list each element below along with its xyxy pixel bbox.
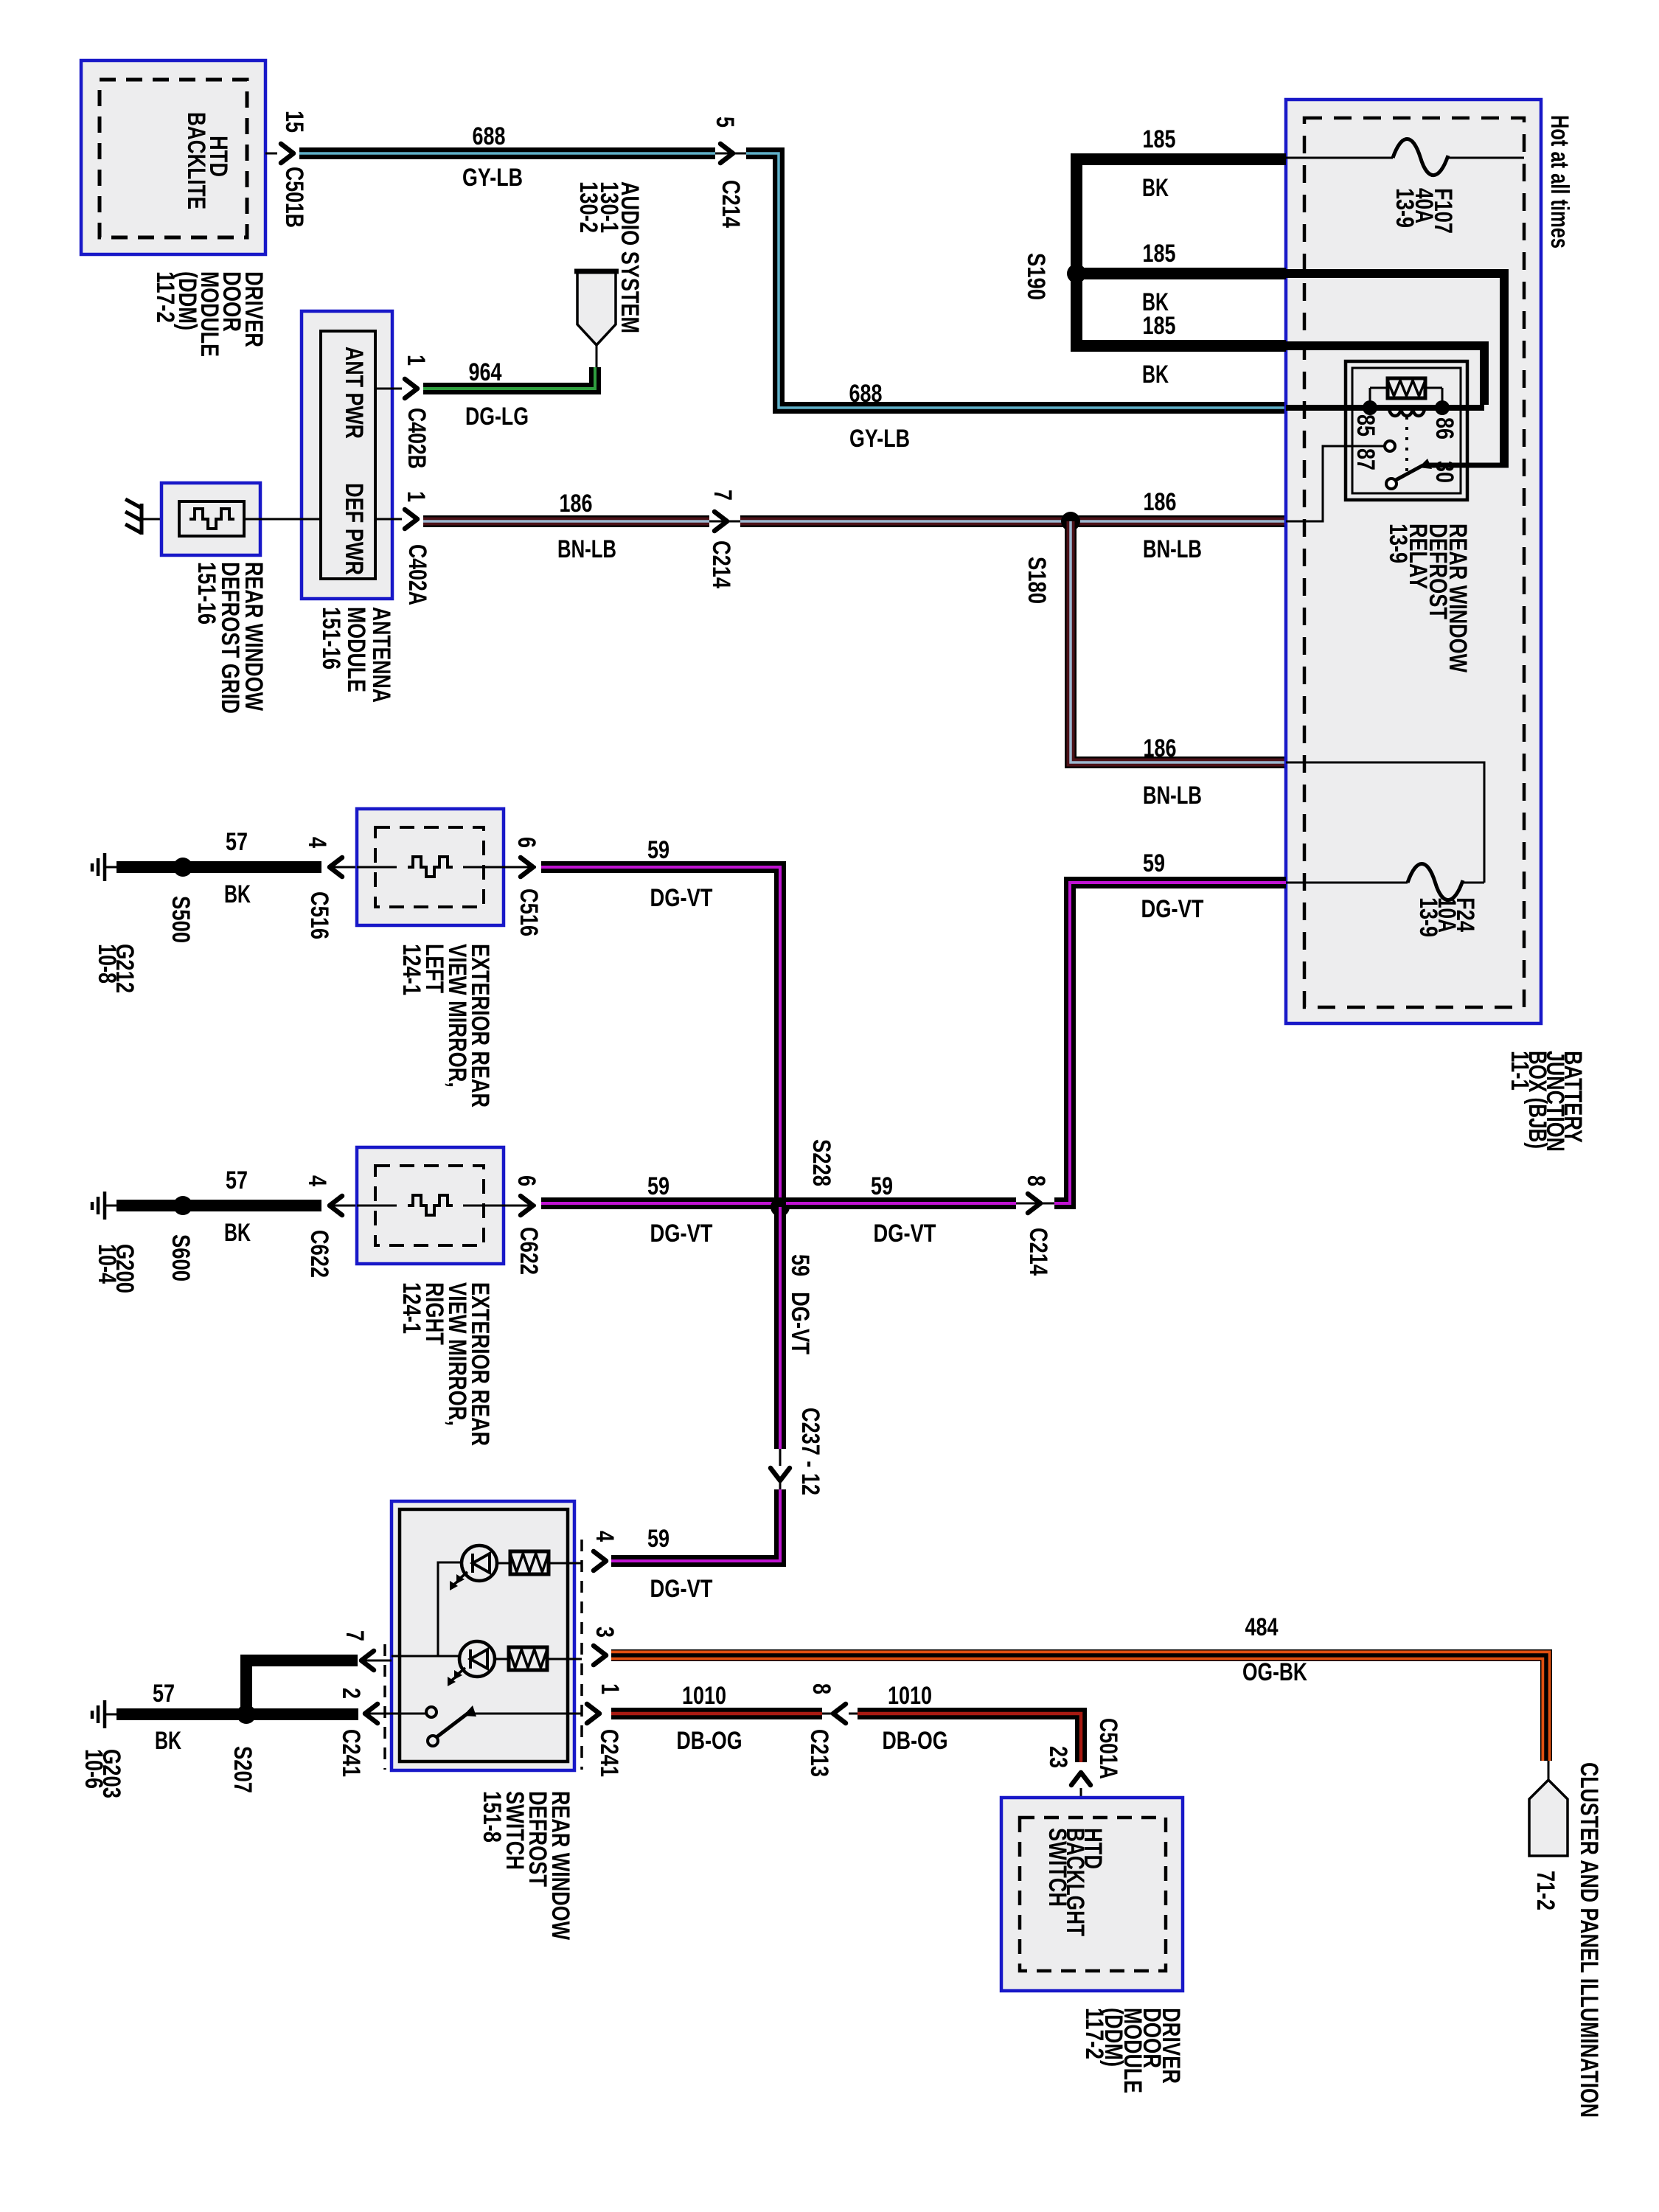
svg-text:2: 2: [337, 1688, 365, 1699]
svg-text:C214: C214: [717, 180, 745, 228]
label EXTERIOR REAR VIEW MIRROR RIGHT 124-1: [397, 1282, 494, 1446]
svg-text:DG-LG: DG-LG: [465, 403, 529, 431]
fuse F107 40A 13-9: [1286, 139, 1524, 234]
svg-text:C214: C214: [707, 540, 735, 588]
relay pin 86 junction: [1430, 400, 1458, 439]
wire 688 GY-LB from C501B to C214: [299, 122, 715, 192]
svg-text:130-2: 130-2: [574, 181, 602, 233]
svg-text:8: 8: [1022, 1175, 1050, 1186]
module box HTD BACKLITE (part of DDM): [81, 60, 265, 254]
module box EXTERIOR REAR VIEW MIRROR LEFT 124-1: [357, 809, 513, 925]
svg-text:C622: C622: [515, 1227, 543, 1275]
svg-text:DEF PWR: DEF PWR: [340, 483, 368, 575]
svg-text:1: 1: [596, 1683, 624, 1694]
wire 59 DG-VT from left mirror to splice S228: [541, 836, 780, 1201]
switch lamp circuit row 2: [392, 1641, 582, 1686]
svg-text:13-9: 13-9: [1391, 188, 1419, 228]
svg-text:C516: C516: [515, 888, 543, 936]
svg-text:C237 - 12: C237 - 12: [796, 1408, 824, 1495]
label G212 10-8: [93, 944, 139, 993]
svg-text:6: 6: [512, 1175, 540, 1186]
svg-text:59: 59: [647, 836, 669, 864]
inline connector C214 pin 5: [711, 116, 746, 228]
svg-text:1: 1: [402, 491, 430, 502]
ground G203 10-6: [92, 1700, 116, 1728]
svg-text:117-2: 117-2: [1080, 2008, 1108, 2059]
svg-text:CLUSTER AND PANEL ILLUMINATION: CLUSTER AND PANEL ILLUMINATION: [1575, 1762, 1603, 2118]
wire 59 DG-VT from right mirror to S228: [541, 1172, 774, 1248]
inline connector C214 pin 7: [707, 490, 740, 588]
svg-text:GY-LB: GY-LB: [849, 425, 910, 453]
pin 6 connector C516 right: [512, 837, 543, 936]
connector CLUSTER AND PANEL ILLUMINATION 71-2: [1529, 1761, 1568, 1910]
svg-text:C402B: C402B: [403, 408, 431, 469]
svg-text:S207: S207: [229, 1746, 257, 1793]
relay pin 85 junction: [1352, 400, 1380, 437]
ground at rear window defrost grid: [125, 499, 179, 535]
module box ANTENNA MODULE 151-16: [302, 311, 392, 599]
svg-text:15: 15: [280, 111, 308, 133]
svg-text:S190: S190: [1022, 253, 1050, 300]
pin 15 connector C501B of HTD BACKLITE: [265, 111, 308, 228]
pin 4 connector C516 left: [303, 837, 357, 939]
svg-text:5: 5: [711, 116, 739, 128]
splice S600: [167, 1196, 195, 1281]
ground G200 10-4: [92, 1192, 116, 1220]
svg-text:OG-BK: OG-BK: [1242, 1658, 1307, 1686]
svg-text:ANTENNA: ANTENNA: [367, 607, 395, 703]
svg-text:DG-VT: DG-VT: [786, 1292, 814, 1354]
svg-text:57: 57: [226, 828, 248, 856]
module box REAR WINDOW DEFROST GRID 151-16: [161, 483, 321, 555]
svg-text:S500: S500: [167, 896, 195, 943]
wire 1010 DB-OG from C213 to C501A: [858, 1682, 1081, 1762]
module box REAR WINDOW DEFROST SWITCH 151-8: [392, 1501, 574, 1770]
svg-text:C214: C214: [1024, 1228, 1052, 1276]
switch contact row 3: [392, 1705, 582, 1746]
svg-text:59: 59: [786, 1254, 814, 1276]
splice S207: [229, 1705, 257, 1793]
pin 4 connector C622 left: [303, 1175, 357, 1278]
wire 484 OG-BK from switch pin 3 to cluster: [611, 1613, 1546, 1761]
label DRIVER DOOR MODULE (DDM) 117-2 upper: [151, 271, 268, 357]
wire 186 BN-LB from C402A to C214: [423, 490, 709, 563]
svg-text:71-2: 71-2: [1531, 1871, 1559, 1910]
wire 57 BK from G200 to mirror pin 4: [116, 1166, 321, 1247]
svg-text:BACKLITE: BACKLITE: [182, 112, 210, 209]
wire 186 BN-LB from S180 down to BJB (to F24): [1071, 521, 1286, 810]
label G200 10-4: [93, 1244, 139, 1293]
svg-text:DG-VT: DG-VT: [1141, 895, 1204, 923]
svg-text:DG-VT: DG-VT: [650, 884, 713, 912]
svg-text:BK: BK: [224, 1219, 251, 1247]
svg-text:C241: C241: [595, 1729, 623, 1777]
svg-text:Hot at all times: Hot at all times: [1545, 115, 1573, 248]
svg-text:10-6: 10-6: [80, 1749, 108, 1789]
svg-text:186: 186: [560, 490, 593, 518]
label Hot at all times: [1545, 115, 1573, 248]
svg-text:484: 484: [1245, 1613, 1279, 1641]
svg-text:186: 186: [1144, 488, 1177, 516]
relay coil humps: [1389, 408, 1425, 416]
label DRIVER DOOR MODULE (DDM) 117-2 lower: [1080, 2008, 1185, 2093]
pin 7 connector of defrost switch: [341, 1630, 392, 1670]
label REAR WINDOW DEFROST GRID 151-16: [192, 562, 268, 714]
inline connector C214 pin 8: [1016, 1175, 1054, 1276]
svg-text:1010: 1010: [888, 1682, 932, 1710]
relay armature dotted link: [1405, 417, 1408, 472]
wire 57 BK from G203 to S207 and pin 2: [116, 1680, 358, 1755]
svg-text:59: 59: [871, 1172, 893, 1200]
svg-text:124-1: 124-1: [397, 944, 425, 995]
pin 1 connector C402A (DEF PWR): [375, 491, 431, 605]
fuse F24 10A 13-9: [1286, 762, 1484, 937]
pin 1 connector C402B (ANT PWR): [375, 355, 431, 469]
splice S228: [771, 1139, 835, 1217]
svg-text:59: 59: [647, 1525, 669, 1553]
svg-text:1010: 1010: [682, 1682, 726, 1710]
svg-text:23: 23: [1044, 1746, 1072, 1768]
svg-text:C622: C622: [305, 1230, 333, 1278]
relay switch blade: [1386, 459, 1509, 489]
svg-text:BN-LB: BN-LB: [1143, 782, 1202, 810]
svg-text:688: 688: [849, 380, 883, 408]
relay coil feed line (688 continuation) through pins 85-86: [1286, 405, 1484, 411]
svg-text:ANT PWR: ANT PWR: [340, 347, 368, 439]
label G203 10-6: [80, 1749, 125, 1798]
svg-text:BK: BK: [224, 880, 251, 908]
svg-text:DG-VT: DG-VT: [650, 1220, 713, 1248]
svg-text:59: 59: [647, 1172, 669, 1200]
pin 1 connector C241 of defrost switch: [587, 1683, 624, 1777]
connector AUDIO SYSTEM 130-1 130-2: [574, 181, 644, 367]
svg-text:DG-VT: DG-VT: [650, 1575, 713, 1603]
svg-text:10-4: 10-4: [93, 1244, 121, 1284]
svg-text:3: 3: [591, 1627, 619, 1638]
pin 4 connector of defrost switch: [591, 1531, 619, 1571]
module box HTD BACKLGHT SWITCH (in DDM): [1001, 1798, 1183, 1991]
svg-text:DG-VT: DG-VT: [874, 1220, 936, 1248]
svg-text:C516: C516: [305, 891, 333, 939]
label BATTERY JUNCTION BOX (BJB) 11-1: [1506, 1051, 1587, 1152]
svg-text:688: 688: [473, 122, 506, 150]
relay box REAR WINDOW DEFROST RELAY 13-9: [1346, 361, 1467, 500]
module box EXTERIOR REAR VIEW MIRROR RIGHT 124-1: [357, 1147, 513, 1264]
wire 59 DG-VT from S228 to C214 pin 8: [786, 1172, 1016, 1248]
wire 688 GY-LB from C214 down and right to BJB relay: [746, 153, 1286, 453]
svg-text:185: 185: [1143, 312, 1176, 340]
label CLUSTER AND PANEL ILLUMINATION: [1575, 1762, 1603, 2118]
svg-text:S228: S228: [807, 1139, 835, 1186]
svg-text:59: 59: [1143, 849, 1165, 877]
svg-text:BK: BK: [155, 1727, 181, 1755]
svg-text:DB-OG: DB-OG: [677, 1727, 742, 1755]
wire 185 BK from S190 to relay pin 30: [1077, 240, 1504, 463]
inline connector C237 - 12: [771, 1408, 824, 1495]
svg-text:964: 964: [469, 358, 502, 386]
svg-text:186: 186: [1144, 734, 1177, 762]
svg-text:SWITCH: SWITCH: [1043, 1828, 1071, 1907]
splice S500: [167, 858, 195, 943]
svg-text:C402A: C402A: [403, 544, 431, 605]
ground G212 10-8: [92, 853, 116, 881]
svg-text:151-8: 151-8: [478, 1791, 506, 1843]
svg-text:4: 4: [303, 837, 331, 848]
svg-text:C241: C241: [337, 1729, 365, 1777]
label REAR WINDOW DEFROST SWITCH 151-8: [478, 1791, 574, 1941]
pin 3 connector of defrost switch: [591, 1627, 619, 1665]
svg-text:BK: BK: [1142, 174, 1169, 202]
svg-text:C501A: C501A: [1094, 1718, 1122, 1779]
wire 57 BK from G212 to mirror pin 4: [116, 828, 321, 908]
svg-text:MODULE: MODULE: [342, 607, 370, 692]
wire 186 BN-LB from C214 to splice S180 and BJB: [740, 488, 1286, 563]
connector dashed line C241 left side: [383, 1644, 386, 1770]
svg-text:117-2: 117-2: [151, 271, 179, 323]
wire 185 BK from S190 down to relay coil pin 86: [1077, 274, 1484, 405]
svg-text:185: 185: [1143, 240, 1176, 268]
svg-text:DB-OG: DB-OG: [883, 1727, 948, 1755]
relay coil resistor: [1370, 378, 1442, 402]
svg-text:185: 185: [1143, 125, 1176, 153]
svg-text:86: 86: [1430, 417, 1458, 439]
svg-text:C213: C213: [805, 1729, 833, 1777]
svg-text:1: 1: [402, 355, 430, 366]
svg-text:BN-LB: BN-LB: [1143, 535, 1202, 563]
svg-text:6: 6: [512, 837, 540, 848]
svg-text:151-16: 151-16: [192, 562, 220, 625]
svg-text:S600: S600: [167, 1234, 195, 1281]
splice S190: [1022, 253, 1086, 300]
module box BATTERY JUNCTION BOX (BJB) 11-1: [1286, 100, 1541, 1023]
svg-text:30: 30: [1430, 461, 1458, 483]
pin 2 connector of defrost switch: [337, 1688, 392, 1777]
svg-text:BN-LB: BN-LB: [557, 535, 616, 563]
svg-text:4: 4: [303, 1175, 331, 1186]
svg-text:151-16: 151-16: [317, 607, 345, 669]
svg-text:BK: BK: [1142, 361, 1169, 389]
wire 57 BK from defrost switch pin 7 to S207: [246, 1660, 358, 1714]
connector dashed line C241 right side: [580, 1540, 583, 1770]
svg-text:13-9: 13-9: [1414, 897, 1442, 937]
relay pin 87 terminal and label: [1352, 441, 1395, 470]
svg-text:S180: S180: [1023, 557, 1051, 604]
switch lamp circuit row 1: [438, 1545, 582, 1656]
svg-text:10-8: 10-8: [93, 944, 121, 984]
svg-text:85: 85: [1352, 414, 1380, 437]
svg-text:GY-LB: GY-LB: [462, 164, 523, 192]
wire 1010 DB-OG from switch pin 1 to C213: [611, 1682, 822, 1755]
svg-text:7: 7: [341, 1630, 369, 1641]
svg-text:7: 7: [709, 490, 737, 501]
wire 59 DG-VT from S228 down to C237: [780, 1207, 814, 1449]
label EXTERIOR REAR VIEW MIRROR LEFT 124-1: [397, 944, 494, 1107]
svg-text:124-1: 124-1: [397, 1282, 425, 1334]
svg-text:11-1: 11-1: [1506, 1051, 1534, 1091]
svg-text:13-9: 13-9: [1384, 524, 1412, 563]
wire 964 DG-LG from C402B to audio system: [423, 358, 595, 431]
svg-text:8: 8: [807, 1683, 835, 1694]
svg-text:57: 57: [153, 1680, 175, 1708]
svg-text:C501B: C501B: [280, 167, 308, 228]
splice S180: [1023, 512, 1080, 604]
inline connector C213 pin 8: [805, 1683, 858, 1777]
wire 185 BK from F107 to S190: [1077, 125, 1286, 268]
pin 23 connector C501A: [1044, 1718, 1122, 1818]
svg-text:87: 87: [1352, 448, 1380, 470]
label ANTENNA MODULE 151-16: [317, 607, 395, 703]
relay pin 87 wire to 186 BN-LB: [1286, 446, 1385, 521]
label REAR WINDOW DEFROST RELAY 13-9: [1384, 524, 1472, 673]
svg-text:57: 57: [226, 1166, 248, 1194]
wire 59 DG-VT from C214 up to BJB F24: [1054, 849, 1286, 1203]
wire 59 DG-VT from C237 to defrost switch pin 4: [611, 1489, 780, 1603]
pin 6 connector C622 right: [512, 1175, 543, 1275]
svg-text:4: 4: [591, 1531, 619, 1542]
